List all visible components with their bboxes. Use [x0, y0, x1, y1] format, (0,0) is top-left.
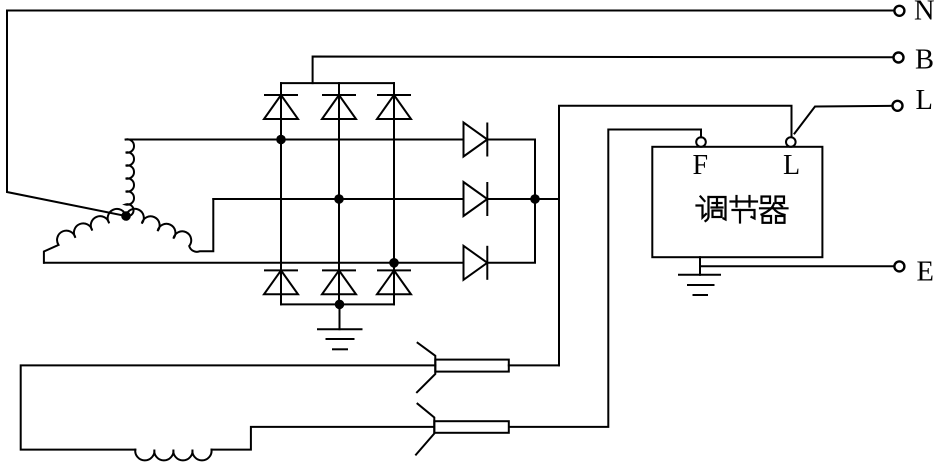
diode VD8 (trio, phase 2) — [464, 182, 488, 216]
bridge column 1 — [280, 83, 282, 304]
diode VD5 (bottom, phase 2) — [322, 270, 356, 294]
stator winding W3 (left coil, phase 3) — [44, 209, 126, 263]
diode VD9 (trio, phase 3) — [464, 246, 488, 280]
junction phase3-column3 — [389, 258, 399, 268]
wire field to lower brush — [212, 427, 435, 450]
brush upper — [435, 360, 509, 372]
wire B lead — [313, 57, 893, 84]
svg-text:N: N — [914, 0, 935, 27]
rectifier bottom bus — [281, 303, 394, 305]
wire E lead — [700, 265, 894, 267]
terminal N — [894, 6, 904, 16]
wire trunk (trio/brush to L node) — [559, 106, 792, 366]
star point junction — [121, 211, 131, 221]
wire phase 2 — [213, 198, 463, 200]
diode VD6 (bottom, phase 3) — [377, 270, 411, 294]
svg-text:L: L — [783, 150, 800, 181]
junction bottom bus — [335, 300, 345, 310]
field winding (rotor coil) — [135, 450, 211, 461]
bridge column 3 — [393, 83, 395, 304]
wire F lead — [509, 130, 701, 427]
slip ring upper — [417, 343, 435, 392]
wire phase 3 — [44, 262, 464, 264]
junction phase2-column2 — [334, 194, 344, 204]
terminal E — [894, 261, 904, 271]
label 调 (drawn strokes) — [697, 197, 726, 222]
wire phase 1 — [126, 139, 464, 141]
stator winding W1 (vertical coil, phase 1) — [126, 139, 134, 216]
diode VD7 (trio, phase 1) — [464, 123, 488, 157]
terminal L — [893, 101, 903, 111]
ground (bridge) — [318, 304, 362, 349]
label 节 (drawn strokes) — [731, 196, 758, 223]
bridge column 2 — [338, 83, 340, 304]
label 器 (drawn strokes) — [760, 197, 788, 223]
wire trio output to trunk — [487, 198, 559, 200]
terminal B — [894, 53, 904, 63]
svg-text:L: L — [916, 85, 933, 116]
junction trio output — [530, 194, 540, 204]
diode VD4 (bottom, phase 1) — [264, 270, 298, 294]
wire N bus from star point to terminal N — [7, 11, 894, 217]
switch blade from regulator L to terminal L — [795, 106, 893, 134]
wire field loop left — [21, 365, 436, 449]
wire upper brush to trunk — [509, 364, 559, 366]
slip ring lower — [416, 404, 434, 455]
svg-text:F: F — [693, 150, 709, 181]
diode VD1 (top, phase 1) — [264, 95, 298, 119]
regulator terminal F circle — [696, 137, 706, 147]
junction phase1-column1 — [276, 135, 286, 145]
diode VD2 (top, phase 2) — [322, 95, 356, 119]
regulator box U1 — [652, 147, 822, 257]
svg-text:B: B — [915, 44, 934, 75]
ground (regulator) — [679, 257, 720, 295]
regulator terminal L circle — [786, 137, 796, 147]
svg-text:E: E — [917, 257, 934, 288]
rectifier top bus — [281, 82, 394, 84]
stator winding W2 (right coil, phase 2) — [126, 199, 213, 252]
diode VD3 (top, phase 3) — [377, 95, 411, 119]
brush lower — [434, 421, 509, 433]
wire trio collector — [487, 140, 535, 263]
